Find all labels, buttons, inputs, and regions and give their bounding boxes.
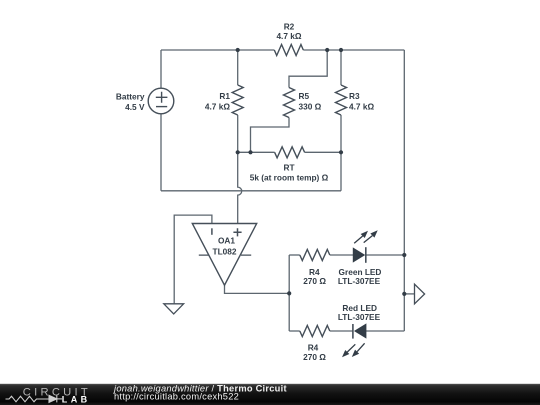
svg-text:Battery: Battery xyxy=(116,91,145,101)
wire bottom rail xyxy=(161,190,341,192)
resistor R3 xyxy=(336,85,347,115)
svg-text:4.5 V: 4.5 V xyxy=(125,102,145,112)
wire R1 top stub xyxy=(237,50,239,85)
wire battery bottom xyxy=(160,114,162,191)
svg-text:R5: R5 xyxy=(299,91,310,101)
junction node R5 top xyxy=(325,48,329,52)
svg-text:RT: RT xyxy=(283,162,294,172)
wire bottom to RT right xyxy=(340,152,342,191)
svg-text:270 Ω: 270 Ω xyxy=(303,352,326,362)
wire R3 top stub xyxy=(340,50,342,85)
svg-text:LTL-307EE: LTL-307EE xyxy=(338,312,381,322)
junction node port xyxy=(402,292,406,296)
svg-text:4.7 kΩ: 4.7 kΩ xyxy=(205,102,230,112)
footer bar xyxy=(0,384,540,405)
junction node R1 bottom xyxy=(236,150,240,154)
wire port stub xyxy=(404,293,414,295)
junction node R3 top xyxy=(339,48,343,52)
svg-text:4.7 kΩ: 4.7 kΩ xyxy=(276,31,301,41)
wire inverting input to ground xyxy=(174,215,212,303)
wire red row left xyxy=(289,330,300,332)
wire noninverting input with hop xyxy=(238,152,242,223)
wire RT row left lead xyxy=(238,151,275,153)
wire green row right xyxy=(366,254,405,256)
wire battery top xyxy=(160,50,162,88)
junction node op-amp output xyxy=(287,291,291,295)
wire top rail left xyxy=(161,49,274,51)
wire R3 bottom stub xyxy=(340,115,342,152)
diode D1 green LED xyxy=(353,230,377,262)
svg-text:http://circuitlab.com/cexh522: http://circuitlab.com/cexh522 xyxy=(114,392,239,402)
svg-text:R2: R2 xyxy=(284,22,295,32)
wire top rail right xyxy=(303,49,404,51)
wire green row left xyxy=(289,254,300,256)
junction node green row right xyxy=(402,253,406,257)
junction node R1 top xyxy=(236,48,240,52)
svg-text:LAB: LAB xyxy=(62,395,91,405)
junction node RT right xyxy=(339,150,343,154)
wire LED branch left vertical xyxy=(288,255,290,331)
resistor R4 green row xyxy=(300,250,330,261)
wire R5 top jog xyxy=(289,50,327,88)
diode D2 red LED xyxy=(342,324,366,357)
ground xyxy=(164,304,184,314)
svg-text:4.7 kΩ: 4.7 kΩ xyxy=(349,102,374,112)
wire red row middle xyxy=(330,330,353,332)
svg-text:330 Ω: 330 Ω xyxy=(299,102,322,112)
wire RT row right lead xyxy=(305,151,341,153)
svg-text:LTL-307EE: LTL-307EE xyxy=(338,276,381,286)
resistor R1 xyxy=(232,85,243,115)
wire green row middle xyxy=(330,254,354,256)
op-amp OA1 xyxy=(192,224,256,286)
svg-text:OA1: OA1 xyxy=(218,236,235,246)
junction node R5 bottom xyxy=(248,150,252,154)
battery V1 symbol xyxy=(148,88,174,114)
svg-text:R4: R4 xyxy=(308,343,319,353)
svg-text:TL082: TL082 xyxy=(213,247,237,257)
svg-text:270 Ω: 270 Ω xyxy=(303,276,326,286)
resistor R4 red row xyxy=(300,326,330,337)
wire op-amp output xyxy=(225,285,290,293)
wire R5 bottom jog xyxy=(251,118,290,153)
resistor R5 xyxy=(284,88,295,118)
wire right rail xyxy=(403,50,405,331)
wire R1 bottom stub xyxy=(237,115,239,152)
svg-text:5k (at room temp) Ω: 5k (at room temp) Ω xyxy=(250,172,329,182)
svg-text:R3: R3 xyxy=(349,91,360,101)
resistor RT xyxy=(275,147,305,158)
CircuitLab logo squiggle and diode xyxy=(6,395,63,402)
wire red row right xyxy=(366,330,404,332)
svg-text:R1: R1 xyxy=(219,91,230,101)
resistor R2 xyxy=(274,45,303,56)
port terminal xyxy=(415,284,425,304)
